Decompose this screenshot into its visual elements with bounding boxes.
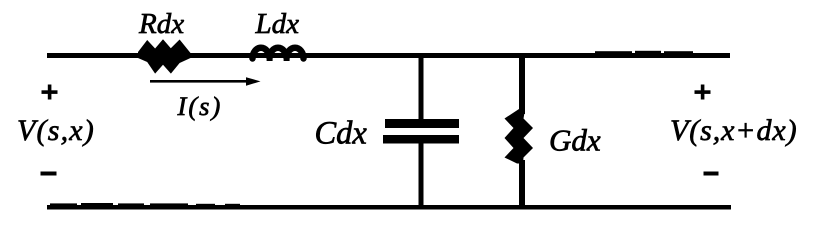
svg-text:Cdx: Cdx	[315, 116, 368, 152]
svg-text:Ldx: Ldx	[255, 8, 300, 40]
svg-text:Rdx: Rdx	[138, 8, 184, 40]
svg-text:V(s,x): V(s,x)	[17, 114, 95, 147]
svg-text:V(s,x+dx): V(s,x+dx)	[670, 114, 797, 147]
svg-text:I(s): I(s)	[177, 91, 223, 121]
svg-text:Gdx: Gdx	[549, 123, 601, 158]
